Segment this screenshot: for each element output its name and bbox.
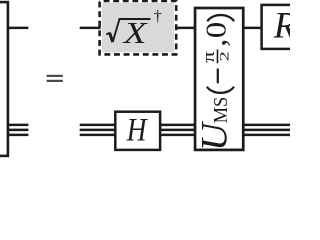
svg-text:π: π <box>199 51 218 63</box>
svg-text:,: , <box>196 39 232 47</box>
svg-text:X: X <box>122 16 149 50</box>
svg-text:2: 2 <box>217 51 231 61</box>
svg-text:0: 0 <box>201 22 232 39</box>
svg-text:U: U <box>194 120 235 151</box>
svg-text:MS: MS <box>211 97 233 124</box>
svg-text:R: R <box>273 5 290 46</box>
svg-text:†: † <box>154 8 162 25</box>
svg-text:H: H <box>126 111 149 148</box>
